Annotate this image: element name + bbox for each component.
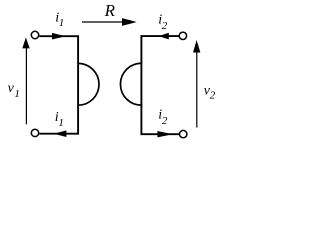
current arrow i1 top (right-pointing) xyxy=(52,33,66,40)
gyrator arc right xyxy=(120,63,141,105)
svg-text:1: 1 xyxy=(14,88,20,100)
label i2 bottom xyxy=(158,108,168,128)
voltage arrow v2 (up) xyxy=(193,40,200,128)
terminal circle top-left xyxy=(31,31,38,38)
terminal circle top-right xyxy=(179,32,186,39)
label i1 top xyxy=(55,10,64,29)
svg-text:1: 1 xyxy=(59,17,65,29)
label R xyxy=(104,1,116,20)
current arrow i2 top (left-pointing) xyxy=(159,33,169,40)
gyrator arc left xyxy=(78,63,99,105)
svg-text:R: R xyxy=(104,1,116,20)
label i2 top xyxy=(158,12,168,31)
svg-text:2: 2 xyxy=(210,90,216,102)
wire left port (top lead, vertical, bottom lead) xyxy=(39,36,78,134)
label v1 xyxy=(8,81,20,100)
svg-text:2: 2 xyxy=(162,20,168,32)
svg-text:2: 2 xyxy=(162,115,168,127)
voltage arrow v1 (up) xyxy=(22,37,29,124)
terminal circle bottom-right xyxy=(180,130,187,137)
label v2 xyxy=(204,83,216,101)
svg-text:1: 1 xyxy=(58,117,64,129)
wire right port (top lead, vertical, bottom lead) xyxy=(141,36,179,134)
terminal circle bottom-left xyxy=(31,129,38,136)
label i1 bottom xyxy=(55,110,64,129)
current arrow i1 bottom (left-pointing) xyxy=(54,130,67,137)
current arrow i2 bottom (right-pointing) xyxy=(157,131,172,137)
R direction arrow (right-pointing) xyxy=(82,18,137,26)
